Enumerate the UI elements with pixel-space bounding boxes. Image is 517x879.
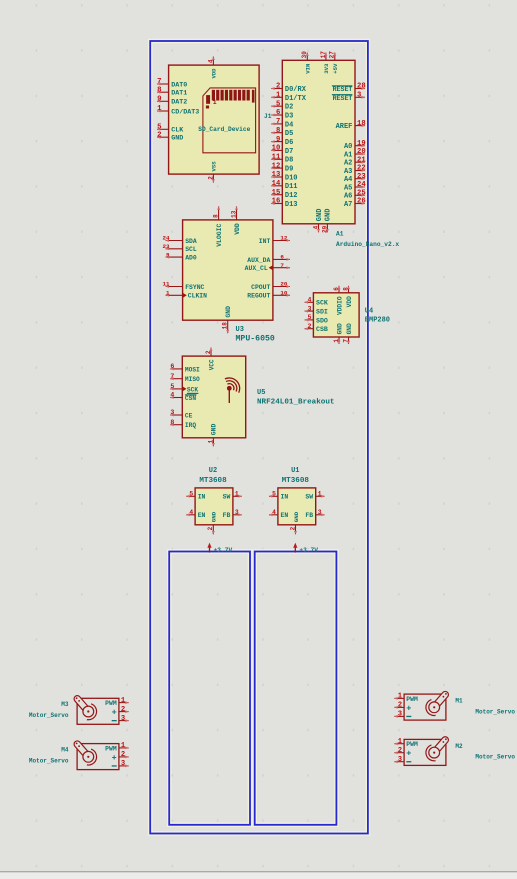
svg-text:3: 3 <box>121 760 125 768</box>
svg-text:+3.7V: +3.7V <box>214 547 233 554</box>
pin 6 AUX_DA <box>247 254 290 264</box>
svg-text:15: 15 <box>272 189 281 197</box>
pin 6 VDDIO <box>333 286 343 315</box>
pin 9 D6 <box>271 136 293 147</box>
U1 pin 3 FB <box>305 509 324 519</box>
svg-text:SDA: SDA <box>185 238 197 245</box>
svg-text:23: 23 <box>357 173 366 181</box>
svg-text:4: 4 <box>189 509 193 516</box>
M4 pin 2 + <box>119 751 129 759</box>
pin 1 GND <box>333 323 343 344</box>
svg-text:SW: SW <box>223 494 231 501</box>
svg-text:CE: CE <box>185 412 193 419</box>
svg-text:MOSI: MOSI <box>185 366 200 373</box>
svg-text:7: 7 <box>157 78 161 86</box>
svg-text:PWM: PWM <box>406 696 418 703</box>
pin 11 D8 <box>271 154 293 165</box>
svg-text:BMP280: BMP280 <box>365 316 390 324</box>
svg-text:1: 1 <box>157 105 162 113</box>
svg-text:A3: A3 <box>344 168 352 176</box>
svg-text:12: 12 <box>272 162 281 170</box>
svg-text:30: 30 <box>301 51 308 59</box>
svg-text:+: + <box>406 749 411 759</box>
svg-text:MPU-6050: MPU-6050 <box>236 334 275 343</box>
svg-text:22: 22 <box>357 165 366 173</box>
svg-text:SDO: SDO <box>316 317 328 324</box>
pin 30 VIN <box>301 51 311 74</box>
svg-text:FSYNC: FSYNC <box>185 284 204 291</box>
U2 pin 4 EN <box>186 509 205 519</box>
svg-text:GND: GND <box>171 135 183 143</box>
pin 3 CE <box>170 409 192 419</box>
pin 26 A7 <box>344 198 366 209</box>
U2 pin 3 FB <box>223 509 242 519</box>
svg-text:1: 1 <box>235 491 239 498</box>
U1 pin 4 EN <box>269 509 288 519</box>
svg-text:U3: U3 <box>236 326 244 334</box>
svg-text:1: 1 <box>121 742 126 750</box>
svg-text:DAT1: DAT1 <box>171 90 187 98</box>
svg-text:1: 1 <box>121 697 126 705</box>
svg-text:GND: GND <box>316 209 324 222</box>
svg-text:2: 2 <box>207 526 214 530</box>
svg-text:FB: FB <box>223 512 231 519</box>
svg-text:13: 13 <box>230 210 237 218</box>
svg-text:3: 3 <box>308 305 312 312</box>
M2 pin 1 PWM <box>394 738 404 746</box>
pin 2 VCC <box>205 348 215 371</box>
svg-text:1: 1 <box>398 693 403 701</box>
pin 4 VDD <box>207 57 217 79</box>
svg-text:SCK: SCK <box>187 386 198 393</box>
pin 20 CPOUT <box>251 281 290 291</box>
M3 pin 1 PWM <box>119 697 129 705</box>
pin 27 +5V <box>329 51 339 74</box>
pin 6 VSS <box>207 161 217 183</box>
svg-text:18: 18 <box>357 120 366 128</box>
svg-text:EN: EN <box>281 512 289 519</box>
svg-text:INT: INT <box>259 238 271 245</box>
svg-text:8: 8 <box>276 127 280 135</box>
svg-text:+: + <box>406 703 411 713</box>
svg-text:2: 2 <box>398 702 402 710</box>
pin 23 SCL <box>163 243 197 253</box>
battery outline right <box>255 552 337 825</box>
svg-text:GND: GND <box>211 424 218 436</box>
svg-text:5: 5 <box>276 100 280 108</box>
pin 4 SCK <box>305 297 328 307</box>
svg-text:24: 24 <box>357 181 366 189</box>
svg-text:CLKIN: CLKIN <box>188 293 207 300</box>
svg-text:4: 4 <box>170 392 174 399</box>
pin 16 D13 <box>271 198 297 209</box>
NRF24L01 radio U5 <box>170 348 334 447</box>
svg-text:VCC: VCC <box>208 359 215 370</box>
svg-text:8: 8 <box>213 214 220 218</box>
pin 9 DAT2 <box>157 96 187 107</box>
pin 6 D3 <box>271 109 293 120</box>
svg-text:4: 4 <box>207 59 214 63</box>
svg-text:A6: A6 <box>344 193 352 201</box>
pin 7 GND <box>342 323 352 344</box>
svg-text:IN: IN <box>281 494 289 501</box>
svg-text:+: + <box>112 708 117 718</box>
svg-text:7: 7 <box>276 118 280 126</box>
svg-text:M4: M4 <box>61 747 69 754</box>
pin 28 RESET <box>332 83 366 93</box>
pin 7 D4 <box>271 118 293 129</box>
servo horn icon M1 <box>426 690 450 715</box>
svg-text:9: 9 <box>157 96 161 104</box>
pin 8 IRQ <box>170 419 196 429</box>
power flag +3.7V (left) <box>207 543 232 554</box>
svg-text:2: 2 <box>205 350 212 354</box>
svg-text:GND: GND <box>346 323 353 334</box>
svg-text:20: 20 <box>357 148 366 156</box>
svg-text:A1: A1 <box>344 151 352 159</box>
pin 3 RESET <box>332 92 365 102</box>
svg-text:6: 6 <box>170 363 174 370</box>
svg-text:A5: A5 <box>344 184 352 192</box>
pin 12 D9 <box>271 162 293 173</box>
svg-text:1: 1 <box>276 92 281 100</box>
Arduino Nano A1 <box>271 51 399 248</box>
svg-text:A0: A0 <box>344 143 352 151</box>
pin 12 INT <box>259 235 290 245</box>
svg-text:CLK: CLK <box>171 127 184 135</box>
pin 24 A5 <box>344 181 366 192</box>
pin 15 D12 <box>271 189 297 200</box>
svg-text:U5: U5 <box>257 389 265 397</box>
svg-text:2: 2 <box>207 176 214 180</box>
pin 8 DAT1 <box>157 86 187 97</box>
pin 4 CSN <box>170 392 196 402</box>
svg-text:+: + <box>112 753 117 763</box>
svg-text:D1/TX: D1/TX <box>285 95 307 103</box>
svg-text:6: 6 <box>333 287 340 291</box>
svg-text:VDD: VDD <box>234 223 241 235</box>
svg-text:SCK: SCK <box>316 300 328 307</box>
svg-text:VIN: VIN <box>305 64 312 74</box>
svg-text:MT3608: MT3608 <box>282 477 310 485</box>
M3 pin 2 + <box>119 706 129 714</box>
svg-text:7: 7 <box>170 373 174 380</box>
svg-text:VSS: VSS <box>211 161 218 172</box>
pin 22 A3 <box>344 165 366 176</box>
svg-text:3: 3 <box>170 409 174 416</box>
svg-text:5: 5 <box>189 491 193 498</box>
pin 7 AUX_CL <box>245 262 290 272</box>
svg-text:13: 13 <box>272 171 281 179</box>
svg-text:FB: FB <box>305 512 313 519</box>
svg-text:6: 6 <box>280 254 284 261</box>
M2 pin 2 + <box>394 747 404 755</box>
U2 pin 2 GND <box>207 511 217 534</box>
pin 5 D2 <box>271 100 293 111</box>
svg-text:D11: D11 <box>285 183 298 191</box>
pin 19 A0 <box>344 140 366 151</box>
servo horn icon M3 <box>73 694 97 719</box>
servo motor M4 <box>29 740 129 770</box>
svg-text:3: 3 <box>398 756 402 764</box>
svg-text:1: 1 <box>318 491 322 498</box>
svg-text:1: 1 <box>213 99 217 106</box>
svg-text:AUX_CL: AUX_CL <box>245 265 268 272</box>
svg-text:26: 26 <box>357 198 366 206</box>
M2 pin 3 - <box>394 756 404 764</box>
MPU-6050 IMU U3 <box>163 206 290 343</box>
svg-text:5: 5 <box>272 491 276 498</box>
svg-text:REGOUT: REGOUT <box>247 293 270 300</box>
pin 2 GND <box>157 131 183 142</box>
svg-text:VDD: VDD <box>211 68 218 79</box>
svg-text:U1: U1 <box>291 467 299 475</box>
svg-text:11: 11 <box>163 281 171 288</box>
svg-text:19: 19 <box>357 140 366 148</box>
svg-text:VLOGIC: VLOGIC <box>216 224 223 247</box>
svg-text:17: 17 <box>320 51 327 59</box>
svg-text:24: 24 <box>163 235 171 242</box>
U1 pin 5 IN <box>269 491 288 501</box>
pin 3 SDI <box>305 305 328 315</box>
svg-text:1: 1 <box>398 738 403 746</box>
svg-text:9: 9 <box>276 136 280 144</box>
svg-text:IRQ: IRQ <box>185 422 196 429</box>
pin 11 FSYNC <box>163 281 205 291</box>
pin 13 D10 <box>271 171 297 182</box>
svg-text:+5V: +5V <box>332 63 339 74</box>
servo motor M2 <box>394 735 515 765</box>
svg-text:Motor_Servo: Motor_Servo <box>475 708 515 715</box>
M1 pin 2 + <box>394 702 404 710</box>
svg-text:3: 3 <box>121 715 125 723</box>
pin 18 GND <box>222 306 232 333</box>
svg-text:J1: J1 <box>264 113 272 120</box>
svg-text:CSB: CSB <box>316 326 328 333</box>
pin 9 AD0 <box>166 251 197 261</box>
pin 5 CLK <box>157 124 184 135</box>
svg-text:GND: GND <box>293 511 300 522</box>
pin 17 3V3 <box>320 51 330 74</box>
svg-text:3: 3 <box>398 711 402 719</box>
pin 25 A6 <box>344 190 366 201</box>
BMP280 sensor U4 <box>305 286 390 344</box>
svg-text:2: 2 <box>308 323 312 330</box>
svg-text:RESET: RESET <box>333 86 353 93</box>
svg-text:AREF: AREF <box>336 123 353 131</box>
battery outline left <box>169 552 250 825</box>
svg-text:11: 11 <box>272 154 281 162</box>
pin 2 CSB <box>305 323 328 333</box>
svg-text:25: 25 <box>357 190 366 198</box>
svg-text:A7: A7 <box>344 201 352 209</box>
svg-text:20: 20 <box>280 281 288 288</box>
pin 6 MOSI <box>170 363 200 373</box>
svg-text:3: 3 <box>235 509 239 516</box>
svg-text:A1: A1 <box>336 231 344 238</box>
U2 pin 1 SW <box>223 491 242 501</box>
pin 10 REGOUT <box>247 290 290 300</box>
svg-text:GND: GND <box>225 306 232 318</box>
svg-text:+3.7V: +3.7V <box>299 547 318 554</box>
svg-text:AUX_DA: AUX_DA <box>247 257 270 264</box>
svg-text:EN: EN <box>198 512 206 519</box>
svg-text:7: 7 <box>280 262 284 269</box>
pin 5 SCK <box>170 383 198 394</box>
svg-text:8: 8 <box>157 86 162 94</box>
svg-text:CD/DAT3: CD/DAT3 <box>171 108 199 116</box>
MT3608 boost converter U2 <box>186 467 241 534</box>
svg-text:SCL: SCL <box>185 246 197 253</box>
svg-text:NRF24L01_Breakout: NRF24L01_Breakout <box>257 398 334 406</box>
svg-text:4: 4 <box>312 225 319 229</box>
pin 8 VDD <box>342 286 352 308</box>
svg-text:2: 2 <box>398 747 402 755</box>
svg-text:10: 10 <box>272 145 281 153</box>
svg-text:AD0: AD0 <box>185 255 197 262</box>
svg-text:16: 16 <box>272 198 281 206</box>
pin 23 A4 <box>344 173 366 184</box>
svg-text:M1: M1 <box>455 698 463 705</box>
svg-text:4: 4 <box>308 297 312 304</box>
svg-text:1: 1 <box>166 290 170 297</box>
svg-text:IN: IN <box>198 494 206 501</box>
svg-text:PWM: PWM <box>406 741 418 748</box>
pin 7 MISO <box>170 373 200 383</box>
servo horn icon M4 <box>73 740 97 765</box>
svg-text:DAT0: DAT0 <box>171 81 187 89</box>
svg-text:2: 2 <box>121 706 125 714</box>
svg-text:1: 1 <box>207 439 214 443</box>
svg-text:A2: A2 <box>344 160 352 168</box>
svg-text:SDI: SDI <box>316 309 328 316</box>
svg-text:A4: A4 <box>344 176 352 184</box>
svg-text:Motor_Servo: Motor_Servo <box>29 757 69 764</box>
svg-text:3: 3 <box>357 92 361 100</box>
pin 1 D1/TX <box>271 92 306 103</box>
svg-text:D5: D5 <box>285 130 293 138</box>
svg-text:DAT2: DAT2 <box>171 99 187 107</box>
SD card connector J1 <box>157 57 272 183</box>
svg-text:27: 27 <box>329 51 336 59</box>
U1 pin 2 GND <box>289 511 299 534</box>
MT3608 boost converter U1 <box>269 467 324 534</box>
svg-text:28: 28 <box>357 83 366 91</box>
svg-text:D4: D4 <box>285 121 293 129</box>
svg-text:D13: D13 <box>285 201 298 209</box>
svg-text:8: 8 <box>342 287 349 291</box>
svg-text:MISO: MISO <box>185 376 200 383</box>
servo horn icon M2 <box>426 735 450 760</box>
svg-text:2: 2 <box>157 131 161 139</box>
pin 21 A2 <box>344 156 366 167</box>
svg-text:D12: D12 <box>285 192 298 200</box>
svg-text:1: 1 <box>333 339 340 343</box>
svg-text:D2: D2 <box>285 104 293 112</box>
svg-text:M3: M3 <box>61 701 69 708</box>
svg-text:PWM: PWM <box>105 700 117 707</box>
antenna icon <box>225 378 240 403</box>
M1 pin 3 - <box>394 711 404 719</box>
svg-text:Motor_Servo: Motor_Servo <box>475 754 515 761</box>
svg-text:29: 29 <box>321 225 328 233</box>
svg-text:D7: D7 <box>285 148 293 156</box>
svg-text:D9: D9 <box>285 166 293 174</box>
pin 10 D7 <box>271 145 293 156</box>
pin 14 D11 <box>271 180 297 191</box>
svg-text:D8: D8 <box>285 157 293 165</box>
svg-text:GND: GND <box>325 209 333 222</box>
svg-text:GND: GND <box>211 511 218 522</box>
M3 pin 3 - <box>119 715 129 723</box>
svg-text:M2: M2 <box>455 743 463 750</box>
svg-text:5: 5 <box>170 383 174 390</box>
M1 pin 1 PWM <box>394 693 404 701</box>
svg-text:2: 2 <box>121 751 125 759</box>
pin 1 CD/DAT3 <box>157 105 199 116</box>
svg-text:14: 14 <box>272 180 281 188</box>
svg-text:5: 5 <box>308 314 312 321</box>
svg-text:2: 2 <box>276 83 280 91</box>
pin 4 GND <box>312 209 323 233</box>
svg-text:2: 2 <box>289 526 296 530</box>
svg-text:PWM: PWM <box>105 745 117 752</box>
pin 13 VDD <box>230 206 240 234</box>
svg-text:23: 23 <box>163 243 171 250</box>
svg-text:VDD: VDD <box>346 296 353 307</box>
servo motor M1 <box>394 690 515 720</box>
pin 2 D0/RX <box>271 83 306 94</box>
SD card symbol graphic <box>203 88 256 153</box>
svg-text:D0/RX: D0/RX <box>285 86 307 94</box>
svg-text:U4: U4 <box>365 307 373 315</box>
svg-text:9: 9 <box>166 251 170 258</box>
svg-text:4: 4 <box>272 509 276 516</box>
pin 5 SDO <box>305 314 328 324</box>
svg-text:SD_Card_Device: SD_Card_Device <box>198 126 250 133</box>
pin 18 AREF <box>336 120 366 131</box>
svg-text:RESET: RESET <box>333 95 353 102</box>
svg-text:7: 7 <box>342 339 349 343</box>
svg-text:D3: D3 <box>285 112 293 120</box>
pin 24 SDA <box>163 235 197 245</box>
svg-text:6: 6 <box>276 109 280 117</box>
svg-text:3V3: 3V3 <box>323 63 330 74</box>
svg-text:VDDIO: VDDIO <box>336 296 343 315</box>
pin 8 D5 <box>271 127 293 138</box>
U1 pin 1 SW <box>305 491 324 501</box>
svg-text:D6: D6 <box>285 139 293 147</box>
svg-text:12: 12 <box>280 235 288 242</box>
svg-text:10: 10 <box>280 290 288 297</box>
pin 1 CLKIN <box>166 290 208 300</box>
svg-text:Arduino_Nano_v2.x: Arduino_Nano_v2.x <box>336 241 399 248</box>
svg-text:MT3608: MT3608 <box>199 477 227 485</box>
svg-text:18: 18 <box>222 322 229 330</box>
svg-text:8: 8 <box>170 419 174 426</box>
pin 7 DAT0 <box>157 78 187 89</box>
pin 29 GND <box>321 209 332 233</box>
svg-text:Motor_Servo: Motor_Servo <box>29 712 69 719</box>
U2 pin 5 IN <box>186 491 205 501</box>
pin 8 VLOGIC <box>213 206 223 246</box>
svg-text:GND: GND <box>336 323 343 334</box>
svg-text:D10: D10 <box>285 174 298 182</box>
svg-text:SW: SW <box>305 494 313 501</box>
svg-text:5: 5 <box>157 124 162 132</box>
M4 pin 1 PWM <box>119 742 129 750</box>
M4 pin 3 - <box>119 760 129 768</box>
